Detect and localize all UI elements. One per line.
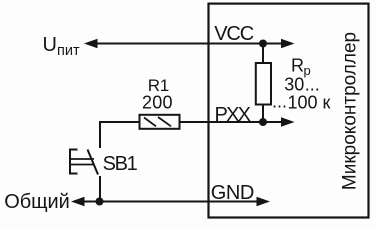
svg-text:Микроконтроллер: Микроконтроллер [340,32,361,190]
svg-text:30: 30 [284,75,304,95]
arrowhead right GND pin [257,197,271,206]
value 200 [142,92,173,112]
value 30...100 к [272,75,331,113]
node GND junction [96,198,104,206]
wire R1 to PXX pin [180,121,284,123]
label Микроконтроллер [340,32,361,190]
net label Uпит [43,34,80,59]
svg-text:200: 200 [142,92,173,112]
svg-text:...: ... [305,75,320,95]
resistor R1 [140,115,180,129]
svg-text:GND: GND [211,182,255,204]
resistor Rp [256,63,271,105]
pin label VCC [214,23,254,45]
svg-text:SB1: SB1 [103,153,138,175]
svg-text:Общий: Общий [4,191,70,213]
wire PXX left segment (corner to R1) [100,122,140,148]
svg-text:U: U [43,34,57,56]
label SB1 [103,153,138,175]
microcontroller box [209,4,369,218]
node VCC junction [259,40,267,48]
net label Общий [4,191,70,213]
pin label PXX [215,104,252,126]
wire GND (Общий to GND pin) [81,201,259,203]
svg-text:PXX: PXX [215,104,252,126]
svg-text:VCC: VCC [214,23,254,45]
wire SB1 to GND line [99,176,101,202]
svg-text:...: ... [272,92,287,112]
arrowhead left to Общий [71,197,85,206]
arrowhead PXX pin [281,117,295,126]
pin label GND [211,182,255,204]
svg-text:100 к: 100 к [288,93,331,113]
arrowhead right VCC pin [281,39,295,48]
label Rp [291,56,311,78]
svg-text:пит: пит [57,43,80,59]
svg-text:R: R [291,56,304,76]
switch SB1 [69,149,98,175]
wire Rp to PXX [262,105,264,123]
wire VCC (Uпит to VCC pin) [94,43,284,45]
arrowhead left to Uпит [84,39,98,48]
node PXX junction [259,118,267,126]
label R1 [148,76,170,95]
wire VCC to Rp [262,44,264,65]
